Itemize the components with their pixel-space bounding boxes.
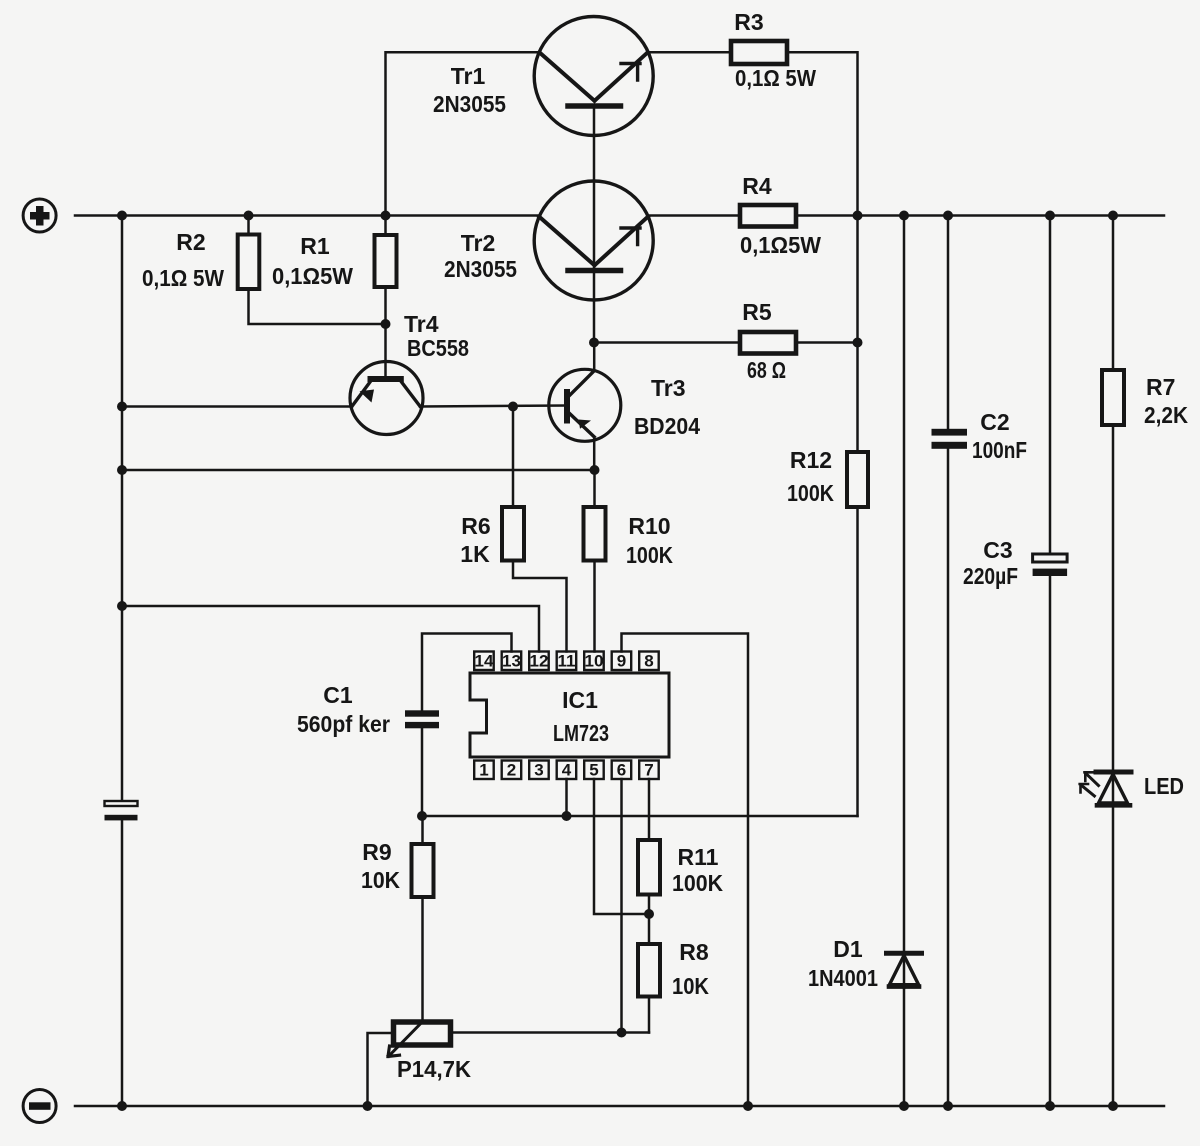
node Tr4 collector R6 <box>508 402 518 412</box>
resistor R1 <box>375 235 397 287</box>
wire R10 top lead <box>593 470 596 507</box>
wire emitter bus y470 <box>122 469 595 472</box>
IC1 pin 12 <box>529 652 549 671</box>
node bottom rail x1113 <box>1108 1101 1118 1111</box>
svg-text:R8: R8 <box>679 939 709 965</box>
svg-text:C2: C2 <box>980 409 1009 435</box>
capacitor (left electrolytic) <box>105 801 138 820</box>
wire R5 to R12 column <box>796 341 858 344</box>
svg-text:LM723: LM723 <box>553 720 609 746</box>
wire pin5 to R11 R8 node <box>594 779 649 914</box>
svg-text:R4: R4 <box>742 173 772 199</box>
wire Tr3 emitter down <box>593 437 596 470</box>
wire R2 bottom to R1 junction <box>249 289 386 324</box>
wire R7 to LED <box>1112 425 1115 806</box>
capacitor C1 <box>405 710 439 728</box>
node bottom rail x1050 <box>1045 1101 1055 1111</box>
svg-text:560pf ker: 560pf ker <box>297 711 390 737</box>
svg-text:R3: R3 <box>734 9 763 35</box>
node R5 R12 <box>853 338 863 348</box>
IC1 pin 14 <box>474 652 494 671</box>
wire pin6 down <box>620 779 623 1033</box>
node R11 R8 pin5 <box>644 909 654 919</box>
svg-text:8: 8 <box>644 652 653 671</box>
svg-text:R6: R6 <box>461 513 490 539</box>
wire R2 top lead <box>247 216 250 235</box>
svg-text:1: 1 <box>479 761 488 780</box>
resistor R10 <box>584 507 606 561</box>
svg-text:R1: R1 <box>300 233 330 259</box>
svg-text:100K: 100K <box>672 870 723 896</box>
svg-text:4: 4 <box>562 761 572 780</box>
wire P1 to R8 bus <box>450 1031 649 1034</box>
svg-text:1N4001: 1N4001 <box>808 965 878 991</box>
svg-text:P14,7K: P14,7K <box>397 1056 471 1082</box>
svg-text:R9: R9 <box>362 839 391 865</box>
IC1 pin 10 <box>584 652 604 671</box>
node pin4 bus <box>562 811 572 821</box>
wire R9 top lead <box>421 816 424 844</box>
svg-text:220µF: 220µF <box>963 563 1018 589</box>
LED <box>1080 772 1131 805</box>
minus terminal <box>23 1090 56 1123</box>
wire R9 bottom to P1 <box>421 897 424 1023</box>
IC1 pin 8 <box>639 652 659 671</box>
svg-text:2,2K: 2,2K <box>1144 402 1188 428</box>
node left bus y406 <box>117 402 127 412</box>
wire R10 bottom to pin 10 <box>593 561 596 652</box>
svg-text:6: 6 <box>617 761 626 780</box>
node bottom rail x904 <box>899 1101 909 1111</box>
node C1 R9 <box>417 811 427 821</box>
wire top rail right <box>648 214 1164 217</box>
svg-text:D1: D1 <box>833 936 863 962</box>
resistor R5 <box>740 332 796 354</box>
node top rail x904 <box>899 211 909 221</box>
wire C2 bottom <box>947 449 950 1106</box>
svg-text:100nF: 100nF <box>972 437 1027 463</box>
svg-text:C1: C1 <box>323 682 353 708</box>
node top rail x385 <box>381 211 391 221</box>
svg-text:2N3055: 2N3055 <box>444 256 517 282</box>
node top rail x248 <box>244 211 254 221</box>
wire C3 bottom <box>1049 576 1052 1106</box>
wire node to R5 <box>594 341 740 344</box>
wire Tr4 emitter to left bus <box>122 405 352 408</box>
wire Tr1 base down through Tr2 to node <box>593 106 596 343</box>
wire C1 bus y816 <box>422 815 858 818</box>
node bottom rail x948 <box>943 1101 953 1111</box>
IC1 pin 3 <box>529 761 549 780</box>
IC1 LM723 body <box>470 673 669 757</box>
transistor Tr3 <box>549 369 621 441</box>
transistor Tr4 <box>350 362 423 435</box>
resistor R11 <box>638 840 660 895</box>
wire Tr3 collector to node <box>593 343 596 371</box>
svg-text:Tr2: Tr2 <box>461 230 496 256</box>
resistor R9 <box>412 844 434 897</box>
wire Tr1 collector riser <box>386 52 540 215</box>
wire R11 to R8 <box>648 895 651 945</box>
wire R12 column upper <box>856 216 859 453</box>
svg-text:14: 14 <box>475 652 494 671</box>
wire D1 column upper <box>903 216 906 989</box>
wire left vertical upper <box>121 216 124 801</box>
svg-text:LED: LED <box>1144 773 1184 799</box>
IC1 pin 4 <box>557 761 577 780</box>
svg-text:0,1Ω 5W: 0,1Ω 5W <box>142 265 224 291</box>
svg-text:Tr4: Tr4 <box>404 311 439 337</box>
wire P1 left to bottom rail <box>368 1033 395 1106</box>
diode D1 <box>887 953 922 986</box>
transistor Tr2 <box>534 181 653 300</box>
resistor R7 <box>1102 370 1124 425</box>
svg-text:BC558: BC558 <box>407 335 469 361</box>
svg-text:3: 3 <box>534 761 543 780</box>
resistor R4 <box>740 205 796 227</box>
node Tr3 emitter R10 <box>590 465 600 475</box>
resistor R12 <box>847 452 868 507</box>
svg-text:11: 11 <box>558 652 576 671</box>
svg-text:0,1Ω5W: 0,1Ω5W <box>740 232 821 258</box>
wire R6 bottom to pin 11 <box>513 561 567 652</box>
svg-text:R2: R2 <box>176 229 205 255</box>
svg-text:0,1Ω5W: 0,1Ω5W <box>272 263 353 289</box>
resistor R6 <box>502 507 524 561</box>
wire pin9 to ground column <box>622 634 749 1107</box>
svg-text:2: 2 <box>507 761 516 780</box>
svg-text:9: 9 <box>617 652 626 671</box>
wire top rail left <box>75 214 539 217</box>
svg-text:1K: 1K <box>460 541 490 567</box>
wire pin13 to C1 <box>422 634 512 711</box>
IC1 pin 13 <box>502 652 522 671</box>
svg-text:2N3055: 2N3055 <box>433 91 506 117</box>
node bottom rail x367 <box>363 1101 373 1111</box>
resistor R8 <box>638 944 660 997</box>
IC1 pin 11 <box>557 652 577 671</box>
wire R8 bottom <box>648 997 651 1033</box>
wire R1 top lead <box>384 216 387 236</box>
node bottom rail x748 <box>743 1101 753 1111</box>
svg-text:100K: 100K <box>787 480 834 506</box>
svg-text:R10: R10 <box>628 513 670 539</box>
wire D1 bottom <box>903 989 906 1106</box>
svg-text:10: 10 <box>585 652 604 671</box>
wire R7 column upper <box>1112 216 1115 371</box>
svg-text:13: 13 <box>502 652 521 671</box>
potentiometer P1 <box>388 1022 451 1057</box>
svg-text:100K: 100K <box>626 542 673 568</box>
capacitor C2 <box>932 429 968 449</box>
IC1 pin 6 <box>612 761 632 780</box>
node left bus y606 <box>117 601 127 611</box>
transistor Tr1 <box>534 17 653 136</box>
svg-text:10K: 10K <box>361 867 400 893</box>
node left bus y470 <box>117 465 127 475</box>
wire Tr4 collector to Tr3 base <box>420 406 566 407</box>
IC1 pin 2 <box>502 761 522 780</box>
wire R1 bottom to Tr4 <box>384 287 387 377</box>
IC1 pin 1 <box>474 761 494 780</box>
IC1 pin 5 <box>584 761 604 780</box>
svg-text:BD204: BD204 <box>634 413 700 439</box>
svg-text:5: 5 <box>589 761 598 780</box>
svg-text:Tr1: Tr1 <box>451 63 486 89</box>
wire C1 bottom <box>421 728 424 816</box>
svg-text:10K: 10K <box>672 973 709 999</box>
node Tr2 base R5 <box>589 338 599 348</box>
svg-text:Tr3: Tr3 <box>651 375 686 401</box>
node top rail x1050 <box>1045 211 1055 221</box>
svg-text:12: 12 <box>530 652 549 671</box>
resistor R2 <box>238 235 260 290</box>
node top rail x948 <box>943 211 953 221</box>
svg-text:0,1Ω 5W: 0,1Ω 5W <box>735 65 816 91</box>
node top rail x1113 <box>1108 211 1118 221</box>
plus terminal <box>23 199 56 232</box>
wire R6 top lead <box>512 407 515 508</box>
wire R3 to rail <box>787 52 858 215</box>
wire pin7 to R11 <box>648 779 651 840</box>
svg-text:R11: R11 <box>678 844 719 870</box>
svg-text:R7: R7 <box>1146 374 1175 400</box>
svg-text:C3: C3 <box>983 537 1012 563</box>
svg-text:7: 7 <box>644 761 653 780</box>
wire bottom rail <box>75 1105 1164 1108</box>
wire pin4 down <box>565 779 568 816</box>
wire LED bottom <box>1112 808 1115 1107</box>
node top rail x857 <box>853 211 863 221</box>
svg-text:IC1: IC1 <box>562 687 598 713</box>
resistor R3 <box>731 41 787 64</box>
wire R12 bottom <box>856 507 859 816</box>
svg-text:68 Ω: 68 Ω <box>747 357 786 383</box>
wire Tr1 emitter to R3 <box>648 51 731 54</box>
svg-text:R12: R12 <box>790 447 832 473</box>
IC1 pin 9 <box>612 652 632 671</box>
wire C3 column upper <box>1049 216 1052 554</box>
IC1 pin 7 <box>639 761 659 780</box>
wire pin12 bus y606 <box>122 606 539 652</box>
capacitor C3 <box>1033 554 1068 576</box>
node top rail x122 <box>117 211 127 221</box>
wire left vertical lower <box>121 821 124 1107</box>
node R1 R2 junction <box>381 319 391 329</box>
svg-text:R5: R5 <box>742 299 772 325</box>
wire C2 column upper <box>947 216 950 430</box>
node pin6 P1 <box>617 1028 627 1038</box>
node bottom rail x122 <box>117 1101 127 1111</box>
